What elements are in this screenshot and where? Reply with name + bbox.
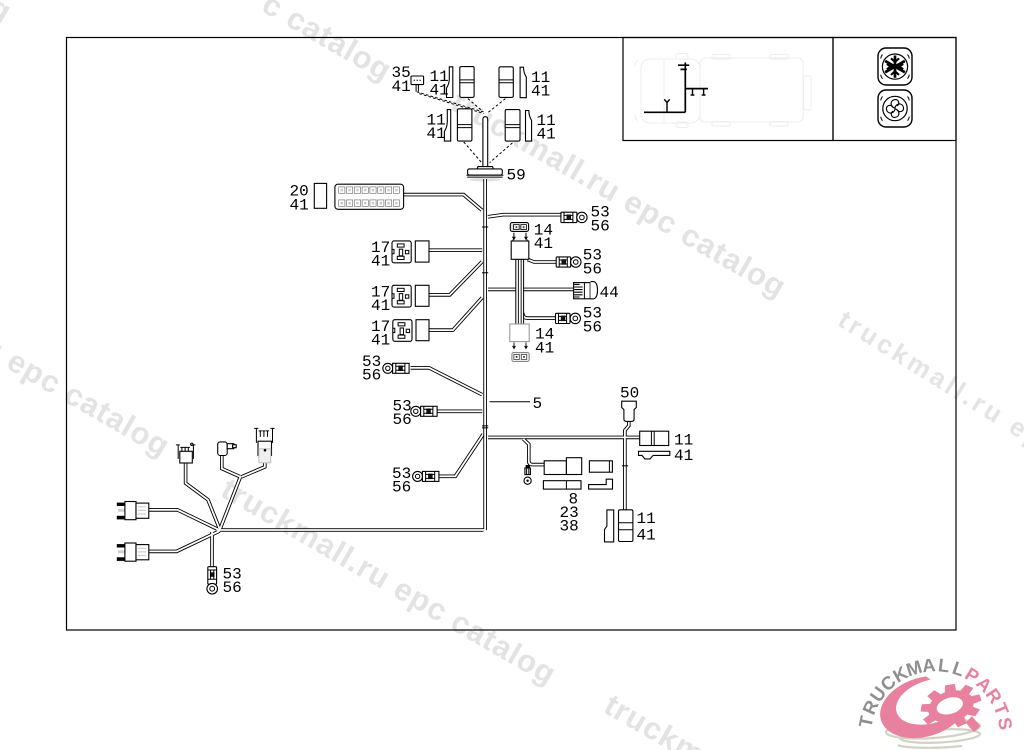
trunk sleeve ticks bbox=[482, 227, 488, 428]
housing 14/41 lower bbox=[510, 324, 529, 362]
logo arched text TRUCKMALLPARTS bbox=[854, 654, 1016, 731]
svg-text:56: 56 bbox=[583, 319, 602, 337]
connector 11/41 right bottom bbox=[605, 510, 633, 542]
wire to connector 44 bbox=[488, 288, 574, 292]
sub-harness vertical wire 14-14 bbox=[516, 258, 524, 325]
wire to ring 53/56 low right bbox=[523, 313, 556, 319]
relay connector 17/41 no.3 bbox=[393, 320, 429, 342]
watermark row B part 2 bbox=[215, 471, 563, 692]
connector 11/41 right top bbox=[640, 431, 669, 445]
svg-text:5: 5 bbox=[533, 395, 543, 413]
wire to ring 53/56 left no.3 bbox=[439, 434, 483, 476]
wire to ring 53/56 left no.1 bbox=[411, 368, 483, 395]
logo swoosh bbox=[872, 658, 1012, 748]
svg-text:41: 41 bbox=[637, 527, 656, 545]
plug D (2-pin left) bbox=[117, 502, 149, 520]
wire to ring 53/56 left no.2 bbox=[437, 409, 482, 413]
connector 14/41 upper 2-pin bbox=[510, 223, 528, 232]
watermark row A part 1 bbox=[256, 0, 398, 89]
svg-text:56: 56 bbox=[591, 218, 610, 236]
dashed leaders row2 bbox=[464, 142, 513, 164]
ring terminal 53/56 low right bbox=[556, 313, 581, 323]
connector profile 11/41 row1 left bbox=[447, 67, 453, 98]
mating arrows 14 upper bbox=[513, 233, 528, 240]
svg-text:41: 41 bbox=[535, 339, 554, 357]
svg-text:41: 41 bbox=[674, 447, 693, 465]
ring terminal 53/56 bottom bbox=[207, 567, 218, 594]
truck location inset box bbox=[623, 38, 833, 141]
item 20 rect bbox=[314, 183, 326, 208]
svg-text:A: A bbox=[921, 654, 936, 676]
ring terminal 53/56 mid right bbox=[556, 257, 581, 267]
frame border bbox=[67, 38, 957, 631]
truck top-view outline (light) bbox=[635, 54, 811, 128]
relay connector 17/41 no.1 bbox=[392, 241, 429, 263]
logo gear bbox=[915, 677, 989, 746]
sensor connector A (crown) bbox=[176, 443, 196, 463]
svg-text:56: 56 bbox=[393, 411, 412, 429]
connector 11/41 row2 right rect bbox=[505, 110, 520, 142]
svg-text:56: 56 bbox=[362, 367, 381, 385]
connector 44 bbox=[574, 282, 598, 299]
wire relay 17/41 no.1 bbox=[429, 248, 482, 252]
housing 14/41 upper bbox=[511, 240, 529, 260]
svg-text:41: 41 bbox=[392, 78, 411, 96]
wire relay 17/41 no.3 bbox=[429, 298, 482, 330]
svg-text:41: 41 bbox=[430, 82, 449, 100]
connector profile 11/41 row2 right bbox=[526, 111, 532, 142]
svg-text:59: 59 bbox=[507, 167, 526, 185]
wire relay 17/41 no.2 bbox=[429, 262, 482, 295]
icons inset box bbox=[833, 38, 956, 141]
wire to ring terminal 53/56 top right bbox=[488, 215, 561, 217]
plug 50 bbox=[622, 401, 637, 421]
connector strip 20/41 bbox=[335, 184, 404, 209]
watermark row B part 3 bbox=[598, 687, 780, 750]
svg-text:41: 41 bbox=[371, 332, 390, 350]
connector profile 11/41 row2 left bbox=[444, 110, 450, 142]
svg-text:41: 41 bbox=[371, 253, 390, 271]
watermark corner fragment bbox=[0, 0, 18, 30]
tape mark on vertical wire bbox=[622, 465, 628, 467]
fan icon bbox=[878, 90, 912, 127]
ring terminal 53/56 top right bbox=[561, 212, 587, 222]
watermark row A part 3 (small) bbox=[833, 304, 1024, 466]
dashed leader row1 right bbox=[488, 99, 505, 113]
svg-text:41: 41 bbox=[531, 83, 550, 101]
connector group 8/23/38 bbox=[543, 458, 612, 489]
svg-text:41: 41 bbox=[427, 125, 446, 143]
cover plate 41 right top bbox=[639, 451, 670, 459]
svg-text:38: 38 bbox=[560, 518, 579, 536]
harness trunk top stub bbox=[483, 117, 488, 167]
sensor connector B (angled plug) bbox=[218, 442, 237, 456]
connector 11/41 row2 left rect bbox=[457, 109, 472, 141]
ring terminal 53/56 left no.3 bbox=[413, 471, 439, 481]
plug E (2-pin left) bbox=[117, 543, 149, 561]
main trunk and branch wires (merged junctions) bbox=[149, 179, 640, 567]
grommet 59 bbox=[466, 167, 503, 182]
wire to ring 53/56 mid right bbox=[528, 259, 557, 262]
svg-text:41: 41 bbox=[371, 297, 390, 315]
svg-text:56: 56 bbox=[583, 261, 602, 279]
svg-text:11: 11 bbox=[637, 510, 656, 528]
svg-text:41: 41 bbox=[290, 197, 309, 215]
ring terminal 53/56 left no.1 bbox=[383, 363, 409, 373]
ring terminal 53/56 left no.2 bbox=[411, 406, 437, 416]
svg-text:50: 50 bbox=[620, 385, 639, 403]
small bulb terminal under branch bbox=[524, 465, 531, 484]
sensor connector C (crown) bbox=[254, 428, 274, 462]
svg-text:56: 56 bbox=[392, 479, 411, 497]
svg-text:56: 56 bbox=[223, 579, 242, 597]
svg-text:41: 41 bbox=[534, 235, 553, 253]
air conditioning (snowflake) icon bbox=[878, 48, 912, 85]
harness route on truck bbox=[644, 63, 708, 113]
dashed leader row1 left bbox=[468, 99, 484, 112]
connector 11/41 row1 left rect bbox=[460, 67, 474, 98]
watermark row B part 1 bbox=[0, 307, 176, 465]
svg-text:44: 44 bbox=[600, 284, 619, 302]
connector profile 11/41 row1 right bbox=[520, 67, 526, 98]
svg-text:S: S bbox=[994, 716, 1017, 732]
connector 11/41 row1 right rect bbox=[499, 67, 513, 98]
leader line item 5 bbox=[490, 401, 531, 403]
dashed leaders from 35 bbox=[417, 92, 484, 114]
svg-text:41: 41 bbox=[537, 126, 556, 144]
connector 35 (small 3-pin) bbox=[411, 76, 424, 92]
logo shadow swirls bbox=[885, 717, 980, 748]
watermark row A part 2 bbox=[445, 84, 793, 305]
wire to connector 20/41 strip bbox=[404, 195, 482, 211]
relay connector 17/41 no.2 bbox=[392, 285, 429, 307]
